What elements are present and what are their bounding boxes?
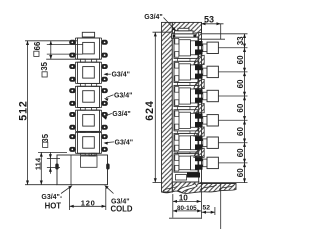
svg-text:G3/4"-: G3/4"-	[41, 194, 62, 201]
svg-text:60: 60	[236, 79, 245, 88]
svg-text:G3/4": G3/4"	[144, 14, 163, 21]
svg-text:120: 120	[81, 198, 96, 207]
svg-text:60: 60	[236, 127, 245, 136]
svg-text:33: 33	[236, 36, 245, 45]
svg-text:60: 60	[236, 103, 245, 112]
svg-text:60: 60	[236, 55, 245, 64]
svg-text:60: 60	[236, 148, 245, 157]
svg-text:G3/4": G3/4"	[115, 140, 134, 147]
svg-text:G3/4": G3/4"	[111, 72, 130, 79]
svg-text:G3/4": G3/4"	[112, 111, 131, 118]
svg-text:80-105: 80-105	[177, 205, 197, 212]
svg-text:10: 10	[179, 194, 189, 203]
svg-text:512: 512	[17, 100, 29, 120]
svg-text:60: 60	[236, 168, 245, 177]
svg-text:114: 114	[33, 157, 42, 170]
svg-text:35: 35	[40, 61, 49, 70]
svg-text:35: 35	[41, 133, 50, 142]
svg-text:624: 624	[144, 100, 156, 120]
svg-text:G3/4": G3/4"	[114, 92, 133, 99]
svg-text:53: 53	[204, 14, 214, 24]
svg-text:66: 66	[33, 41, 42, 50]
svg-text:HOT: HOT	[45, 201, 62, 210]
svg-text:52: 52	[203, 205, 211, 212]
svg-text:COLD: COLD	[110, 204, 132, 213]
